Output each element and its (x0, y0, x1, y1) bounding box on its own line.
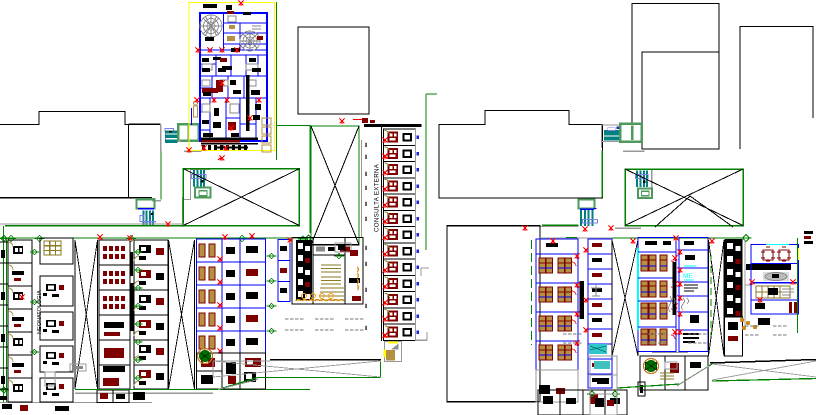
building outline: west service block (right plan) (439, 111, 603, 199)
left ward small south glyphs (0, 396, 69, 411)
site boundary line y=225 (left plan) (0, 222, 184, 228)
elevator cluster B stairs (left plan) (183, 170, 210, 200)
right ward R1 lower rooms (536, 370, 578, 402)
right ward NE corner marks (804, 231, 813, 244)
right ward wing R1 green edge (531, 240, 533, 345)
white annex rectangle (right plan southwest) (447, 226, 540, 402)
wing D red cross mark (250, 234, 255, 240)
left ward corridor grid markers east (267, 253, 277, 334)
wing D grid marker (334, 253, 344, 259)
right ward south room strip (538, 390, 627, 415)
tan bottle glyph west of surgery rooms (194, 101, 198, 117)
waiting seats (orange arcs) (296, 300, 344, 301)
building outline: north tower A (right plan) (632, 4, 719, 126)
surgery block black furniture (202, 4, 263, 137)
right ward R2 corridor gray details (652, 296, 688, 353)
tree symbol (right plan) (644, 359, 659, 374)
right ward far east room column R4 (740, 245, 799, 331)
elevator shaft S1 (left plan) (137, 199, 156, 226)
right ward wing R2 rooms (638, 238, 708, 352)
entrance canopy lines (right plan) (655, 196, 733, 227)
bench icons below tree (45, 364, 86, 386)
right ward R1 east strip rooms (584, 239, 613, 388)
gray wall west of patio (182, 197, 184, 227)
tree symbol (left plan) (198, 349, 213, 364)
left ward wing C east blue column (278, 240, 290, 302)
building outline: north tower B (right plan) (642, 52, 719, 149)
svg-text:ME: ME (683, 273, 693, 280)
right ward corridor bar R1 (580, 281, 585, 319)
svg-text:CONSULTA EXTERNA: CONSULTA EXTERNA (374, 163, 381, 232)
green wire: surgery to ward link (161, 151, 183, 203)
site boundary line (right plan) (540, 225, 641, 231)
left ward wing C rooms (pediatria, blue walls) (197, 239, 267, 354)
gray top edge of right ward (540, 237, 612, 240)
red survey marks (left plan) (20, 119, 345, 301)
left ward corridor wedge W2 (crossed) (169, 240, 195, 389)
wire: corridor links right plan (601, 142, 644, 198)
elevator cluster R2 (right plan) (634, 170, 652, 199)
right plan parking dash labels (563, 326, 786, 343)
gray L-glyph west of annex (421, 268, 429, 276)
surgery block red door marks (187, 1, 262, 162)
svg-text:NEONATOLOGIA: NEONATOLOGIA (37, 290, 43, 334)
red survey marks (right plan) (523, 226, 715, 245)
left ward wing A rooms (neonatologia west) (8, 238, 73, 402)
right ward dark stair block R3 (725, 239, 743, 356)
wing D dense stair column (296, 240, 312, 300)
surgery block tan window boxes (262, 118, 271, 152)
gray walkway line at consulta south (381, 332, 428, 378)
left ward rooms below south edge (97, 390, 145, 403)
patio crossed box (right plan, green) (625, 169, 743, 226)
wing D east room bits (349, 250, 361, 301)
green site boundary line between plans (426, 94, 437, 250)
surgery block rooms (blue walls) (200, 13, 267, 141)
wing D gray cabinet (335, 243, 351, 252)
elevator cluster R1 (right plan) (601, 124, 642, 142)
building outline: north annex rectangle (left plan) (298, 27, 369, 114)
stair shaft crossed box (left plan center) (311, 126, 359, 245)
surgery block bottom service rows (201, 138, 258, 151)
wing D khaki library shelves (320, 265, 344, 300)
yellow service box at consulta south end (385, 342, 402, 362)
patio crossed box (left plan, green) (183, 169, 299, 226)
right ward wing R1 patient rooms (536, 239, 580, 370)
plaza parking dash labels (left plan) (285, 319, 363, 330)
left ward grid bubbles center (133, 249, 142, 380)
left ward west edge strip rooms (0, 242, 8, 389)
road with cross lattice (left plan south) (75, 360, 381, 390)
left ward: grid bubbles on north edge (0, 235, 308, 393)
left ward wing B rooms (center-west) (99, 240, 168, 389)
wire: corridor links near service block (129, 124, 202, 151)
consulta externa room column (left plan) (383, 128, 420, 341)
black bits below shaft base (316, 247, 350, 252)
right ward morgue rooms below wedge (590, 356, 617, 415)
elevator cluster A (left plan) (165, 124, 199, 143)
right ward R2 south rooms (640, 356, 708, 390)
left ward wing C lower rooms (197, 353, 266, 389)
green top edge of right ward (612, 235, 752, 242)
consulta externa label texts (small) (363, 142, 367, 330)
surgery block gray OR light details (200, 15, 261, 113)
gray service lines east of R3 (745, 240, 751, 330)
building outline: west service block (left plan) (0, 112, 129, 198)
right ward green east edge (797, 238, 799, 333)
left ward wing D rooms (east, black walls) (292, 238, 363, 305)
right plaza furniture icons (638, 362, 677, 396)
elevator cluster R3 (right plan) (579, 200, 598, 227)
consulta externa top wall (thick black) (364, 124, 422, 127)
wing D orange arc seats column (357, 267, 358, 290)
right ward corridor wedge X2 (709, 240, 725, 356)
right ward corridor wedge X1 (612, 240, 638, 356)
building outline: northeast tower C (right plan) (740, 27, 813, 150)
road with cross lattice (right plan south) (617, 360, 816, 389)
left ward corridor wedge W1 (crossed) (75, 240, 98, 389)
left ward: green border lines (0, 226, 310, 403)
consulta externa corridor wall (381, 127, 383, 341)
green site lines at shaft (277, 126, 314, 242)
surgery block frame (yellow/green) (189, 2, 277, 160)
gray corridor wall west of consulta (361, 140, 363, 237)
red tick at shaft top-right (353, 118, 375, 123)
surgery block OR table black base (205, 37, 214, 41)
